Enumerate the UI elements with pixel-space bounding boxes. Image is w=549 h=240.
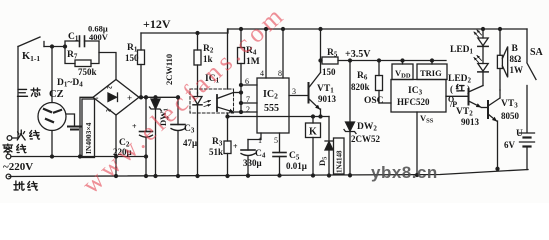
capacitor C3 47u [177, 97, 179, 124]
capacitor C4 330u [247, 140, 249, 151]
svg-text:DW2: DW2 [357, 122, 377, 133]
LED1 [482, 29, 484, 38]
svg-text:150: 150 [125, 53, 139, 63]
svg-text:D5: D5 [317, 156, 329, 166]
capacitor C5 0.01u [273, 152, 286, 154]
pin 8 [282, 29, 284, 78]
svg-text:3: 3 [292, 87, 296, 96]
svg-text:K1-1: K1-1 [22, 51, 40, 63]
switch SA [526, 29, 528, 62]
label ~220V [3, 161, 33, 173]
pin VSS [416, 112, 418, 175]
wire bridge + node [139, 96, 178, 98]
svg-text:+: + [127, 93, 132, 103]
ground at socket [66, 114, 75, 126]
wire switch to C1 node [44, 46, 65, 48]
diode D5 1N4148 [328, 117, 330, 142]
svg-text:150: 150 [322, 67, 336, 77]
label 火线 [17, 130, 39, 140]
svg-text:2: 2 [246, 105, 250, 114]
svg-text:+: + [233, 142, 238, 151]
svg-text:330μ: 330μ [243, 158, 262, 168]
switch K1-1 [18, 37, 40, 47]
svg-text:9013: 9013 [461, 117, 480, 127]
svg-text:HFC520: HFC520 [397, 97, 430, 107]
IC3 HFC520 box [391, 80, 446, 113]
svg-text:8: 8 [278, 69, 282, 78]
svg-text:B: B [512, 44, 519, 54]
socket CZ circle [38, 103, 66, 131]
svg-text:D1~D4: D1~D4 [57, 78, 83, 89]
svg-text:8050: 8050 [501, 111, 520, 121]
svg-text:CZ: CZ [49, 89, 64, 100]
watermark red elecfans [76, 0, 291, 199]
transistor VT3 8050 [487, 101, 489, 118]
svg-text:VSS: VSS [420, 113, 434, 125]
pin O/P [446, 95, 467, 97]
svg-text:+12V: +12V [143, 17, 171, 31]
svg-text:5: 5 [274, 136, 278, 145]
svg-text:+3.5V: +3.5V [345, 49, 371, 60]
pin 3 [289, 95, 309, 97]
zener DW2 2CW52 [349, 61, 351, 123]
wire bridge bottom to ground [115, 115, 117, 176]
svg-text:51k: 51k [209, 147, 223, 157]
svg-text:6V: 6V [504, 140, 516, 150]
label 零线 [3, 144, 26, 154]
svg-text:R3: R3 [212, 137, 223, 148]
label 地线 [14, 181, 38, 190]
transistor VT1 9013 [308, 83, 310, 103]
pin 7 [241, 102, 257, 104]
pin 1 [248, 133, 261, 140]
resistor R3 51k column [227, 29, 229, 89]
svg-text:TRIG: TRIG [420, 68, 442, 78]
label D1~D4 [57, 78, 83, 89]
svg-text:7: 7 [246, 95, 250, 104]
svg-text:R5: R5 [327, 48, 338, 59]
svg-text:VT3: VT3 [501, 99, 518, 110]
capacitor C2 220u [145, 97, 147, 131]
svg-text:6: 6 [245, 77, 249, 86]
svg-text:): ) [467, 84, 470, 94]
svg-text:LED1: LED1 [450, 45, 474, 56]
svg-text:~220V: ~220V [3, 161, 33, 173]
svg-text:U: U [516, 129, 523, 139]
svg-text:4: 4 [260, 69, 264, 78]
transistor VT2 9013 [468, 89, 470, 105]
resistor R4 1M [240, 29, 242, 48]
svg-text:IN4003×4: IN4003×4 [84, 122, 93, 154]
wire +12V top rail left section [141, 29, 228, 33]
svg-text:OSC: OSC [364, 96, 384, 106]
terminal 地线 T3 [6, 174, 11, 179]
svg-text:-: - [96, 93, 99, 103]
label K1-1 [22, 51, 40, 63]
label 三芯 [18, 88, 41, 97]
svg-text:1: 1 [258, 136, 262, 145]
opto LED [193, 97, 202, 105]
wire C1R7 to bridge top [99, 53, 116, 80]
optocoupler IC1 [205, 74, 220, 85]
speaker B [499, 29, 501, 55]
svg-text:K: K [309, 127, 317, 138]
wire opto emitter / pin2 stub [234, 111, 258, 113]
resistor R2 1k [197, 33, 199, 50]
svg-text:IC3: IC3 [408, 86, 423, 97]
svg-text:VT1: VT1 [317, 84, 334, 95]
pin TRIG box [417, 64, 447, 80]
svg-text:47μ: 47μ [183, 138, 197, 148]
label CZ [49, 89, 64, 100]
svg-text:2CW52: 2CW52 [351, 134, 380, 144]
svg-text:~: ~ [106, 106, 112, 117]
svg-text:R7: R7 [67, 50, 78, 61]
svg-text:2CW110: 2CW110 [164, 54, 174, 85]
capacitor C1 [65, 41, 80, 47]
node +3.5V [345, 49, 371, 60]
svg-text:VDD: VDD [395, 68, 411, 80]
wire VT1 emitter node [228, 116, 330, 118]
wire left riser to switch [17, 47, 19, 139]
svg-text:1N4148: 1N4148 [336, 150, 344, 173]
svg-text:LED2: LED2 [448, 74, 472, 85]
opto phototransistor [216, 95, 218, 111]
svg-text:(: ( [450, 84, 453, 94]
pin 6 [241, 84, 257, 86]
opto light arrows [204, 101, 211, 107]
bridge rectifier D1-D4 [93, 80, 139, 116]
svg-text:VT2: VT2 [456, 107, 473, 118]
label (red) [450, 84, 470, 94]
label IN4003x4 boxed [82, 99, 95, 158]
pin 2 [246, 105, 250, 114]
battery U 6V [520, 132, 535, 134]
svg-text:C3: C3 [184, 124, 195, 135]
socket CZ column [51, 45, 54, 48]
pin 4 [265, 29, 267, 78]
wire neutral rail from T2 [11, 156, 146, 158]
svg-text:C1: C1 [68, 32, 79, 43]
resistor R7 750k [65, 47, 75, 64]
resistor R1 150 [140, 33, 142, 50]
socket bottom lead [51, 131, 53, 157]
relay K [312, 117, 314, 124]
wire bottom ground rail [9, 170, 528, 177]
pin VDD box [392, 64, 413, 80]
wire top rail right section (+3.5V feed) [228, 28, 527, 30]
pin OSC [364, 96, 384, 106]
svg-text:820k: 820k [351, 82, 370, 92]
svg-text:1W: 1W [510, 65, 524, 75]
resistor R6 820k [378, 61, 380, 76]
resistor R5 150 [322, 57, 338, 64]
svg-text:~: ~ [107, 83, 113, 94]
svg-text:0.01μ: 0.01μ [286, 161, 307, 171]
IC2 555 timer box [257, 78, 289, 133]
svg-text:IC2: IC2 [263, 89, 278, 101]
node +12V label [143, 17, 171, 31]
zener DW1 2CW110 [155, 97, 157, 99]
svg-text:750k: 750k [78, 67, 97, 77]
label 0.68u 400V [88, 24, 109, 43]
wire OSC stub [379, 102, 391, 104]
svg-text:9013: 9013 [318, 94, 337, 104]
LED2 [478, 64, 488, 72]
wire opto collector stub [234, 92, 242, 94]
terminal 火线 T1 [7, 136, 12, 141]
pin 5 [279, 133, 281, 153]
svg-text:R1: R1 [127, 43, 138, 54]
svg-text:C5: C5 [289, 151, 300, 162]
svg-text:R6: R6 [357, 71, 368, 82]
svg-text:ybx8.cn: ybx8.cn [371, 163, 438, 182]
svg-text:8Ω: 8Ω [510, 54, 522, 64]
wire bridge left to neutral [80, 97, 93, 156]
terminal 零线 T2 [6, 154, 11, 159]
svg-text:SA: SA [530, 47, 544, 58]
svg-text:555: 555 [264, 103, 279, 114]
